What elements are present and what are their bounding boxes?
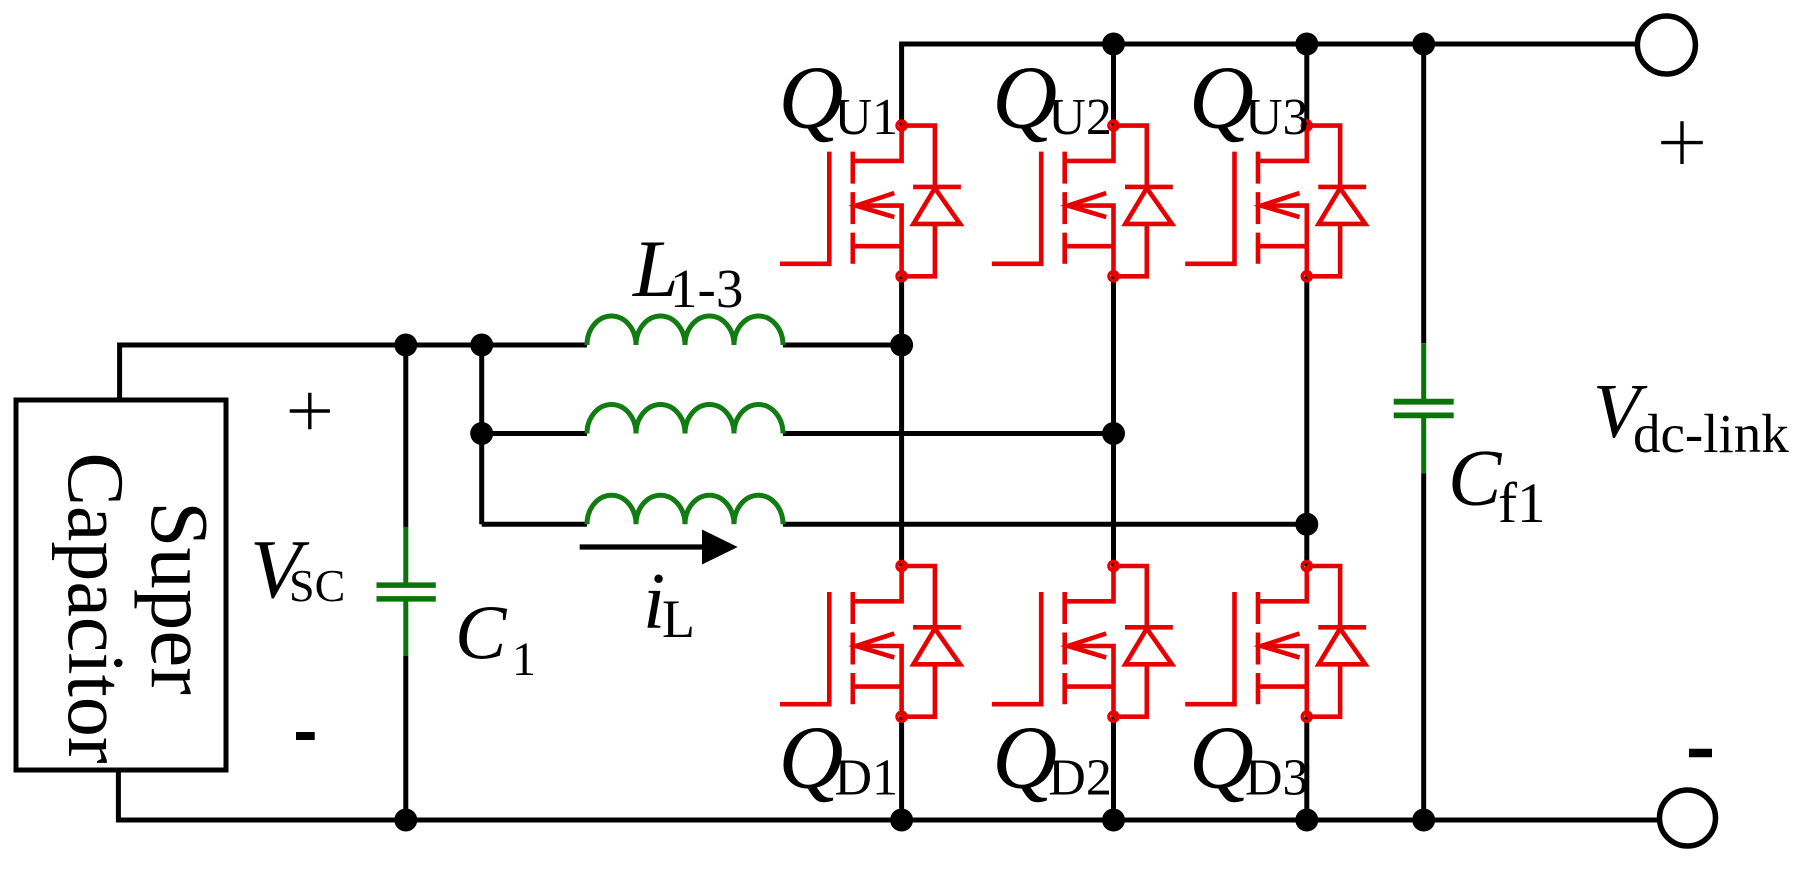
svg-text:C: C xyxy=(455,590,508,676)
transistor QD2 : source node circle xyxy=(1109,712,1118,721)
transistor QU3 : drain bar + stub xyxy=(1258,126,1307,161)
inductor L1 coil xyxy=(587,316,783,345)
transistor QD3 : drain bar + stub xyxy=(1258,566,1307,601)
wire phase2 mid xyxy=(1111,276,1116,566)
node dot top rail @QU2 xyxy=(1102,33,1125,56)
wire C1 top lead (black) xyxy=(403,345,408,527)
capacitor Cf1 lead upper (green) xyxy=(1421,343,1426,399)
transistor QU3 : body arrow xyxy=(1261,193,1299,217)
transistor QU1 xyxy=(780,121,961,281)
transistor QU3 : source bar xyxy=(1258,244,1307,249)
svg-text:SC: SC xyxy=(289,560,345,611)
svg-text:1-3: 1-3 xyxy=(670,258,743,319)
wire Cf1 bottom lead (black) xyxy=(1421,474,1426,821)
node dot row1 @feeder xyxy=(470,334,493,357)
node dot bottom rail @phase2 xyxy=(1102,809,1125,832)
transistor QU2 : channel (dashed) xyxy=(1062,152,1067,264)
svg-text:D3: D3 xyxy=(1245,750,1309,807)
transistor QU1 : drain bar + stub xyxy=(853,126,902,161)
transistor QD2 : channel (dashed) xyxy=(1062,592,1067,704)
transistor QD1 : drain bar + stub xyxy=(853,566,902,601)
node dot row1 @C1 xyxy=(394,334,417,357)
node dot row2 @phase2 xyxy=(1102,422,1125,445)
transistor QD2 : drain node circle xyxy=(1109,561,1118,570)
node dot row1 @phase1 xyxy=(890,334,913,357)
transistor QU2 : drain bar + stub xyxy=(1065,126,1114,161)
node dot row2 @feeder xyxy=(470,422,493,445)
transistor QU1 : source node circle xyxy=(897,272,906,281)
transistor QD2 : body arrow xyxy=(1068,634,1106,658)
wire QD2 source lead xyxy=(1111,717,1116,820)
svg-text:D1: D1 xyxy=(835,750,899,807)
transistor QD2 : drain bar + stub xyxy=(1065,566,1114,601)
inductor L2 coil xyxy=(587,405,783,434)
super capacitor box xyxy=(16,400,226,770)
node dot row3 @phase3 xyxy=(1295,513,1318,536)
transistor QD3 : body arrow xyxy=(1261,634,1299,658)
wire QU3 drain lead xyxy=(1304,44,1309,126)
transistor QD1 : gate lead xyxy=(780,592,829,704)
node dot top rail @QU3 xyxy=(1295,33,1318,56)
transistor QD3 : drain node circle xyxy=(1302,561,1311,570)
svg-text:1: 1 xyxy=(512,633,536,686)
transistor QU3 : drain node circle xyxy=(1302,121,1311,130)
transistor QU3 xyxy=(1185,121,1366,281)
wire supercap bottom lead xyxy=(116,768,121,823)
terminal - circle xyxy=(1660,790,1716,846)
wire QU1 drain lead xyxy=(899,42,904,126)
transistor QD2 xyxy=(992,561,1173,721)
transistor QU3 : body diode xyxy=(1307,126,1340,187)
transistor QD3 : channel (dashed) xyxy=(1256,592,1261,704)
transistor QU2 : body arrow xyxy=(1068,193,1106,217)
svg-text:dc-link: dc-link xyxy=(1633,403,1789,464)
terminal + circle xyxy=(1637,16,1695,74)
node dot top rail @Cf1 xyxy=(1412,33,1435,56)
transistor QU3 : gate lead xyxy=(1185,152,1234,264)
transistor QD2 : body diode xyxy=(1114,566,1147,627)
transistor QU1 : source bar xyxy=(853,244,902,249)
transistor QD1 xyxy=(780,561,961,721)
transistor QD1 : source bar xyxy=(853,684,902,689)
svg-text:L: L xyxy=(662,589,695,649)
transistor QU2 : source node circle xyxy=(1109,272,1118,281)
svg-text:f1: f1 xyxy=(1498,472,1545,535)
svg-text:U2: U2 xyxy=(1048,89,1112,146)
transistor QU1 : drain node circle xyxy=(897,121,906,130)
transistor QD1 : channel (dashed) xyxy=(850,592,855,704)
wire top rail xyxy=(902,42,1638,47)
svg-text:C: C xyxy=(1448,435,1503,523)
transistor QD3 : body diode xyxy=(1307,566,1340,627)
wire feeder vertical xyxy=(479,345,484,524)
svg-text:Super: Super xyxy=(134,501,226,695)
transistor QU3 : source node circle xyxy=(1302,272,1311,281)
wire phase3 mid xyxy=(1304,276,1309,566)
transistor QU1 : body arrow xyxy=(856,193,894,217)
capacitor C1 lead upper (green) xyxy=(403,527,408,583)
wire C1 bottom lead (black) xyxy=(403,656,408,820)
inductor L3 coil xyxy=(587,495,783,524)
plus sign (Vdc) xyxy=(1661,121,1703,164)
transistor QU2 : body diode xyxy=(1114,126,1147,187)
capacitor C1 plates xyxy=(377,582,436,588)
transistor QD3 xyxy=(1185,561,1366,721)
plus sign (Vsc) xyxy=(290,393,330,430)
wire QU2 drain lead xyxy=(1111,44,1116,126)
transistor QU2 : source bar xyxy=(1065,244,1114,249)
transistor QD3 : gate lead xyxy=(1185,592,1234,704)
transistor QD1 : source node circle xyxy=(897,712,906,721)
svg-text:Capacitor: Capacitor xyxy=(51,453,139,764)
wire row3 right xyxy=(783,522,1307,527)
wire QD3 source lead xyxy=(1304,717,1309,820)
node dot bottom rail @C1 xyxy=(394,809,417,832)
transistor QD3 : source node circle xyxy=(1302,712,1311,721)
transistor QU2 xyxy=(992,121,1173,281)
transistor QD2 : gate lead xyxy=(992,592,1041,704)
svg-text:U1: U1 xyxy=(835,89,899,146)
transistor QU1 : channel (dashed) xyxy=(850,152,855,264)
minus sign (Vdc) xyxy=(1689,749,1712,758)
transistor QU3 : channel (dashed) xyxy=(1256,152,1261,264)
svg-text:D2: D2 xyxy=(1048,750,1112,807)
transistor QD1 : body arrow xyxy=(856,634,894,658)
capacitor Cf1 lead lower (green) xyxy=(1421,418,1426,474)
wire row3 left xyxy=(482,522,587,527)
transistor QU1 : body diode xyxy=(902,126,935,187)
wire bottom rail xyxy=(118,818,1659,823)
node dot bottom rail @phase1 xyxy=(890,809,913,832)
transistor QD1 : body diode xyxy=(902,566,935,627)
node dot bottom rail @phase3 xyxy=(1295,809,1318,832)
transistor QU2 : drain node circle xyxy=(1109,121,1118,130)
node dot bottom rail @Cf1 xyxy=(1412,809,1435,832)
minus sign (Vsc) xyxy=(296,732,315,740)
wire row2 left xyxy=(482,431,587,436)
capacitor C1 lead lower (green) xyxy=(403,602,408,657)
transistor QU1 : gate lead xyxy=(780,152,829,264)
wire phase1 mid xyxy=(899,276,904,566)
wire row1 right xyxy=(783,343,902,348)
capacitor Cf1 plates xyxy=(1394,399,1454,405)
transistor QU2 : gate lead xyxy=(992,152,1041,264)
wire row2 right xyxy=(783,431,1114,436)
svg-text:U3: U3 xyxy=(1245,89,1309,146)
wire supercap top lead xyxy=(120,345,587,400)
wire Cf1 top lead (black) xyxy=(1421,44,1426,343)
transistor QD2 : source bar xyxy=(1065,684,1114,689)
current arrow iL xyxy=(580,544,705,549)
transistor QD3 : source bar xyxy=(1258,684,1307,689)
transistor QD1 : drain node circle xyxy=(897,561,906,570)
wire QD1 source lead xyxy=(899,717,904,820)
